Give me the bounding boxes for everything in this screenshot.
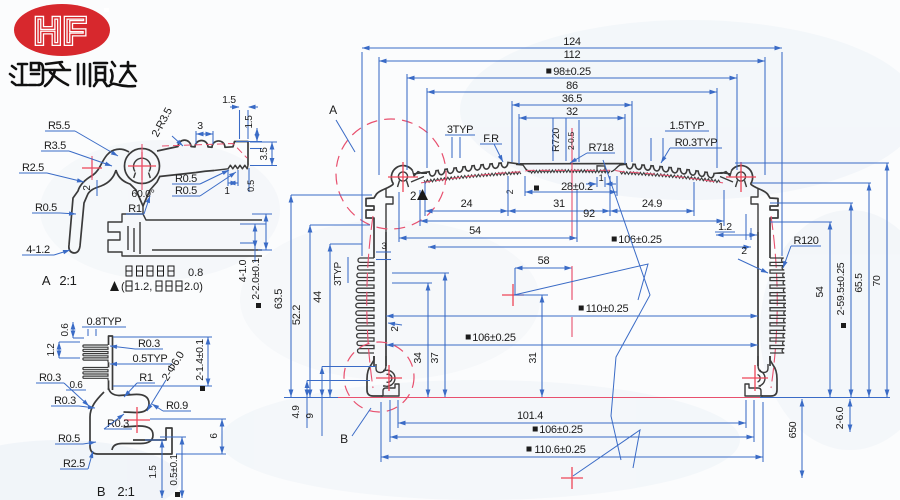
dim 34: [392, 283, 432, 397]
svg-text:58: 58: [538, 255, 550, 267]
svg-text:R1: R1: [128, 203, 142, 215]
detail A centermark R-center: [82, 156, 102, 180]
dim A R2.5: [19, 162, 84, 183]
svg-text:R0.9: R0.9: [166, 400, 188, 412]
svg-text:R1: R1: [139, 372, 153, 384]
svg-text:63.5: 63.5: [273, 289, 285, 309]
svg-text:34: 34: [412, 352, 424, 364]
logo HF ellipse: [14, 4, 110, 56]
svg-text:2: 2: [410, 191, 416, 203]
centermark 58 datum: [502, 284, 524, 306]
svg-text:R2.5: R2.5: [22, 162, 44, 174]
dim 65.5: [853, 183, 871, 397]
dim 52.2: [291, 225, 312, 397]
dim 58: [515, 255, 572, 300]
svg-text:2:1: 2:1: [59, 273, 76, 288]
svg-text:0.6: 0.6: [69, 380, 83, 391]
svg-text:2: 2: [505, 189, 515, 194]
dim A 1.5 rot: [236, 115, 262, 149]
detail circle A: [336, 119, 446, 229]
dim 24: [425, 198, 508, 213]
svg-text:86: 86: [566, 80, 578, 92]
main vertical centerline: [571, 128, 573, 337]
dim 54 right: [814, 222, 832, 397]
main right wall with fins: [367, 216, 786, 388]
dim A 1: [224, 170, 238, 197]
dim 37: [392, 273, 449, 397]
dim 24.9: [610, 198, 694, 213]
label 2-0.5: [566, 120, 579, 162]
detail A red dashed crest line: [162, 144, 247, 159]
dim B 0.5 rot: [160, 437, 186, 498]
detail B profile outline: [83, 336, 172, 454]
svg-text:60.0°: 60.0°: [131, 188, 154, 200]
dim A 0.5 rot: [246, 168, 256, 192]
svg-text:2-6.0: 2-6.0: [834, 406, 846, 429]
svg-text:R0.3: R0.3: [39, 372, 61, 384]
dim 2 right: [738, 245, 768, 273]
dim 44: [312, 244, 332, 397]
dim A 4-1.2: [22, 244, 70, 256]
svg-text:52.2: 52.2: [291, 305, 303, 325]
svg-text:2:1: 2:1: [117, 484, 134, 499]
svg-text:4-1.0: 4-1.0: [237, 259, 249, 282]
svg-text:32: 32: [566, 106, 578, 118]
centermark bottom datum: [561, 467, 583, 489]
svg-text:R0.3TYP: R0.3TYP: [675, 137, 718, 149]
dim 31 vert: [514, 295, 548, 397]
svg-text:4-1.2: 4-1.2: [26, 244, 50, 256]
dim 110 middle: [386, 303, 758, 318]
svg-text:1.2: 1.2: [46, 343, 57, 357]
svg-text:F.R: F.R: [483, 133, 499, 145]
label R120: [783, 235, 821, 268]
svg-text:R3.5: R3.5: [44, 140, 66, 152]
dim 106 middle: [386, 332, 758, 347]
svg-text:31: 31: [527, 352, 539, 364]
svg-text:2: 2: [741, 245, 747, 257]
svg-text:B: B: [340, 432, 348, 446]
leader zigzag 3: [573, 430, 640, 476]
dim A R5.5: [45, 120, 118, 156]
dim 650: [787, 399, 804, 478]
dim A R0.5 a: [172, 170, 229, 185]
svg-text:1.5: 1.5: [148, 465, 159, 479]
main top-left boss centermark: [388, 162, 418, 192]
leader zigzag 2: [514, 264, 648, 300]
svg-text:1.2,: 1.2,: [134, 281, 152, 293]
main left wall with fins: [356, 216, 777, 388]
dim B R0.5: [55, 433, 96, 445]
svg-text:3.5: 3.5: [259, 147, 270, 161]
svg-text:2: 2: [390, 326, 401, 332]
dim 63.5: [273, 195, 293, 397]
dim B 6 rot: [150, 419, 226, 454]
ext lines top chain: [362, 52, 782, 256]
main bottom-right foot: [745, 356, 777, 396]
svg-text:24: 24: [461, 198, 473, 210]
dim B 1.2 rot: [46, 342, 80, 358]
svg-text:0.8TYP: 0.8TYP: [87, 316, 122, 328]
svg-text:0.6: 0.6: [60, 323, 71, 337]
dim 1.2: [715, 214, 757, 240]
dim B R2.5: [60, 451, 93, 470]
dim 3 fins: [376, 241, 391, 260]
dim A 60 deg: [131, 188, 154, 200]
svg-text:R120: R120: [793, 235, 818, 247]
svg-text:A: A: [42, 273, 51, 288]
main bottom-left boss centermark: [376, 365, 402, 391]
svg-text:R5.5: R5.5: [48, 120, 70, 132]
svg-text:0.5: 0.5: [246, 180, 256, 192]
label B 2:1: [97, 484, 135, 499]
ext lines bottom: [381, 400, 763, 462]
dim 70: [871, 163, 889, 397]
svg-text:24.9: 24.9: [642, 198, 662, 210]
dim B R0.3 b: [36, 372, 89, 406]
svg-text:R0.5: R0.5: [58, 433, 80, 445]
dim A 3.5 rot: [250, 142, 277, 166]
svg-text:0.8: 0.8: [188, 267, 203, 279]
svg-text:2-2.0±0.1: 2-2.0±0.1: [250, 258, 262, 300]
svg-text:70: 70: [871, 275, 883, 287]
svg-text:R0.5: R0.5: [35, 202, 57, 214]
svg-text:54: 54: [814, 286, 826, 298]
svg-text:3TYP: 3TYP: [333, 261, 344, 285]
dim 106 upper: [428, 234, 751, 249]
svg-text:9: 9: [305, 413, 316, 419]
dim 2 wall: [388, 322, 402, 332]
svg-text:110±0.25: 110±0.25: [586, 303, 629, 315]
dim A R0.5 b: [172, 172, 236, 197]
main horizontal centerline bottom: [284, 397, 890, 399]
main top wall red centerline: [421, 170, 723, 183]
svg-text:R0.5: R0.5: [175, 173, 197, 185]
dim B 0.6 rot: [60, 322, 84, 338]
label A balloon: [329, 103, 355, 152]
note 原1.2现改为2.0: [110, 281, 203, 293]
dim B R1: [124, 372, 155, 397]
label B balloon: [340, 408, 371, 446]
dim B 2-1.4 rot: [113, 337, 212, 391]
svg-text:110.6±0.25: 110.6±0.25: [534, 444, 585, 456]
svg-text:54: 54: [469, 225, 481, 237]
svg-text:R2.5: R2.5: [63, 458, 85, 470]
main bottom-left foot: [367, 356, 399, 396]
detail A centermark knob: [128, 144, 156, 190]
dim B 0.6 c: [66, 380, 86, 391]
svg-text:3: 3: [382, 241, 387, 252]
svg-text:A: A: [329, 103, 337, 117]
main top-right boss centermark: [726, 162, 756, 192]
svg-text:106±0.25: 106±0.25: [472, 332, 516, 344]
svg-text:1.5: 1.5: [244, 115, 255, 129]
svg-text:6: 6: [209, 433, 220, 439]
dim B R0.3 c: [51, 395, 95, 409]
svg-text:1.5TYP: 1.5TYP: [670, 120, 705, 132]
dim 4.9: [291, 381, 370, 429]
dim A 4-1.0: [237, 224, 266, 282]
dim 110.6: [381, 444, 763, 459]
dim A 1.5 top: [222, 94, 258, 139]
dim A R1: [126, 196, 150, 215]
ext lines right: [735, 163, 889, 222]
label R720: [550, 118, 566, 161]
svg-text:1: 1: [224, 186, 230, 197]
dim A R3.5: [41, 140, 112, 166]
svg-text:2-1.4±0.1: 2-1.4±0.1: [194, 339, 206, 381]
dim 86: [427, 80, 717, 94]
dim 2-6.0: [834, 399, 852, 432]
dim 101.4: [398, 410, 746, 425]
dim 28: [505, 173, 617, 196]
svg-text:101.4: 101.4: [517, 410, 543, 422]
dim 98: [407, 66, 737, 80]
dim B R0.3 a: [110, 338, 163, 350]
dim 106 bottom: [390, 424, 754, 439]
svg-text:0.5±0.1: 0.5±0.1: [169, 454, 180, 486]
label R718: [570, 142, 615, 163]
svg-text:106±0.25: 106±0.25: [539, 424, 583, 436]
svg-text:31: 31: [553, 198, 565, 210]
label 1.5TYP: [651, 120, 709, 161]
dim 54 upper: [399, 190, 577, 242]
dim B 2-PHI6.0: [147, 349, 187, 411]
dim B R0.9: [152, 400, 191, 412]
svg-text:R718: R718: [588, 142, 613, 154]
svg-text:2.0): 2.0): [184, 281, 203, 293]
svg-text:2-0.5: 2-0.5: [566, 131, 576, 149]
svg-text:1: 1: [599, 173, 604, 183]
dim 112: [379, 49, 765, 63]
dim B R0.3 d: [104, 414, 132, 430]
svg-text:3TYP: 3TYP: [447, 124, 473, 136]
svg-text:1.2: 1.2: [718, 221, 732, 233]
dim B 0.5TYP: [110, 353, 172, 366]
label 3TYP top: [445, 124, 475, 158]
svg-text:106±0.25: 106±0.25: [618, 234, 662, 246]
ext lines 24-31-24.9: [425, 176, 694, 216]
svg-text:4.9: 4.9: [291, 405, 302, 419]
logo HF letters: [34, 11, 88, 53]
dim 31: [508, 198, 610, 213]
dim 124: [362, 36, 782, 50]
svg-text:(: (: [121, 281, 125, 293]
svg-text:R0.3: R0.3: [54, 395, 76, 407]
dim B 1.5 rot: [145, 440, 166, 498]
dim 3TYP left: [333, 257, 348, 286]
main top-right corner boss: [717, 166, 778, 232]
note 两齿各加长0.8: [126, 266, 203, 279]
detail A profile outline: [69, 140, 262, 256]
main bottom-right boss centermark: [742, 365, 768, 391]
svg-text:112: 112: [564, 49, 581, 61]
svg-text:37: 37: [429, 352, 441, 364]
revision mark 2: [410, 189, 428, 203]
dim 36.5: [512, 93, 632, 107]
label R0.3TYP: [661, 137, 722, 163]
dim A 2 rot: [82, 180, 97, 196]
dim A 2-R3.5: [150, 106, 183, 146]
svg-text:92: 92: [583, 208, 595, 220]
dim 32: [519, 106, 625, 120]
main top wall with teeth: [413, 162, 731, 182]
svg-text:1.5: 1.5: [222, 94, 236, 106]
main top-left corner boss: [366, 166, 427, 232]
dim 92: [420, 190, 724, 226]
svg-text:2: 2: [82, 185, 93, 191]
svg-text:R0.3: R0.3: [138, 338, 160, 350]
svg-text:R0.5: R0.5: [175, 185, 197, 197]
svg-text:B: B: [97, 484, 105, 499]
detail B centermark boss: [124, 407, 150, 433]
svg-text:36.5: 36.5: [562, 93, 582, 105]
svg-text:65.5: 65.5: [853, 273, 865, 293]
dim 9: [305, 367, 376, 437]
svg-text:2-59.5±0.25: 2-59.5±0.25: [835, 262, 847, 315]
svg-text:44: 44: [312, 291, 324, 303]
svg-text:650: 650: [787, 421, 799, 438]
dim A 3: [196, 120, 213, 144]
svg-text:R720: R720: [550, 128, 562, 152]
dim A R0.5 left: [32, 202, 76, 216]
dim B 0.8TYP: [82, 316, 126, 336]
company name 鸿发顺达: [10, 62, 136, 86]
svg-text:0.5TYP: 0.5TYP: [133, 353, 168, 365]
label F.R: [480, 133, 503, 162]
ext lines left: [291, 195, 372, 244]
leader zigzag 1: [603, 160, 650, 460]
svg-text:HF: HF: [34, 11, 88, 53]
svg-text:124: 124: [563, 36, 581, 48]
dim 2-59.5: [835, 203, 853, 397]
detail circle B: [344, 342, 414, 412]
dim A 2-2.0: [250, 214, 272, 308]
svg-text:98±0.25: 98±0.25: [553, 66, 591, 78]
svg-text:3: 3: [197, 120, 203, 132]
label A 2:1: [42, 273, 77, 288]
